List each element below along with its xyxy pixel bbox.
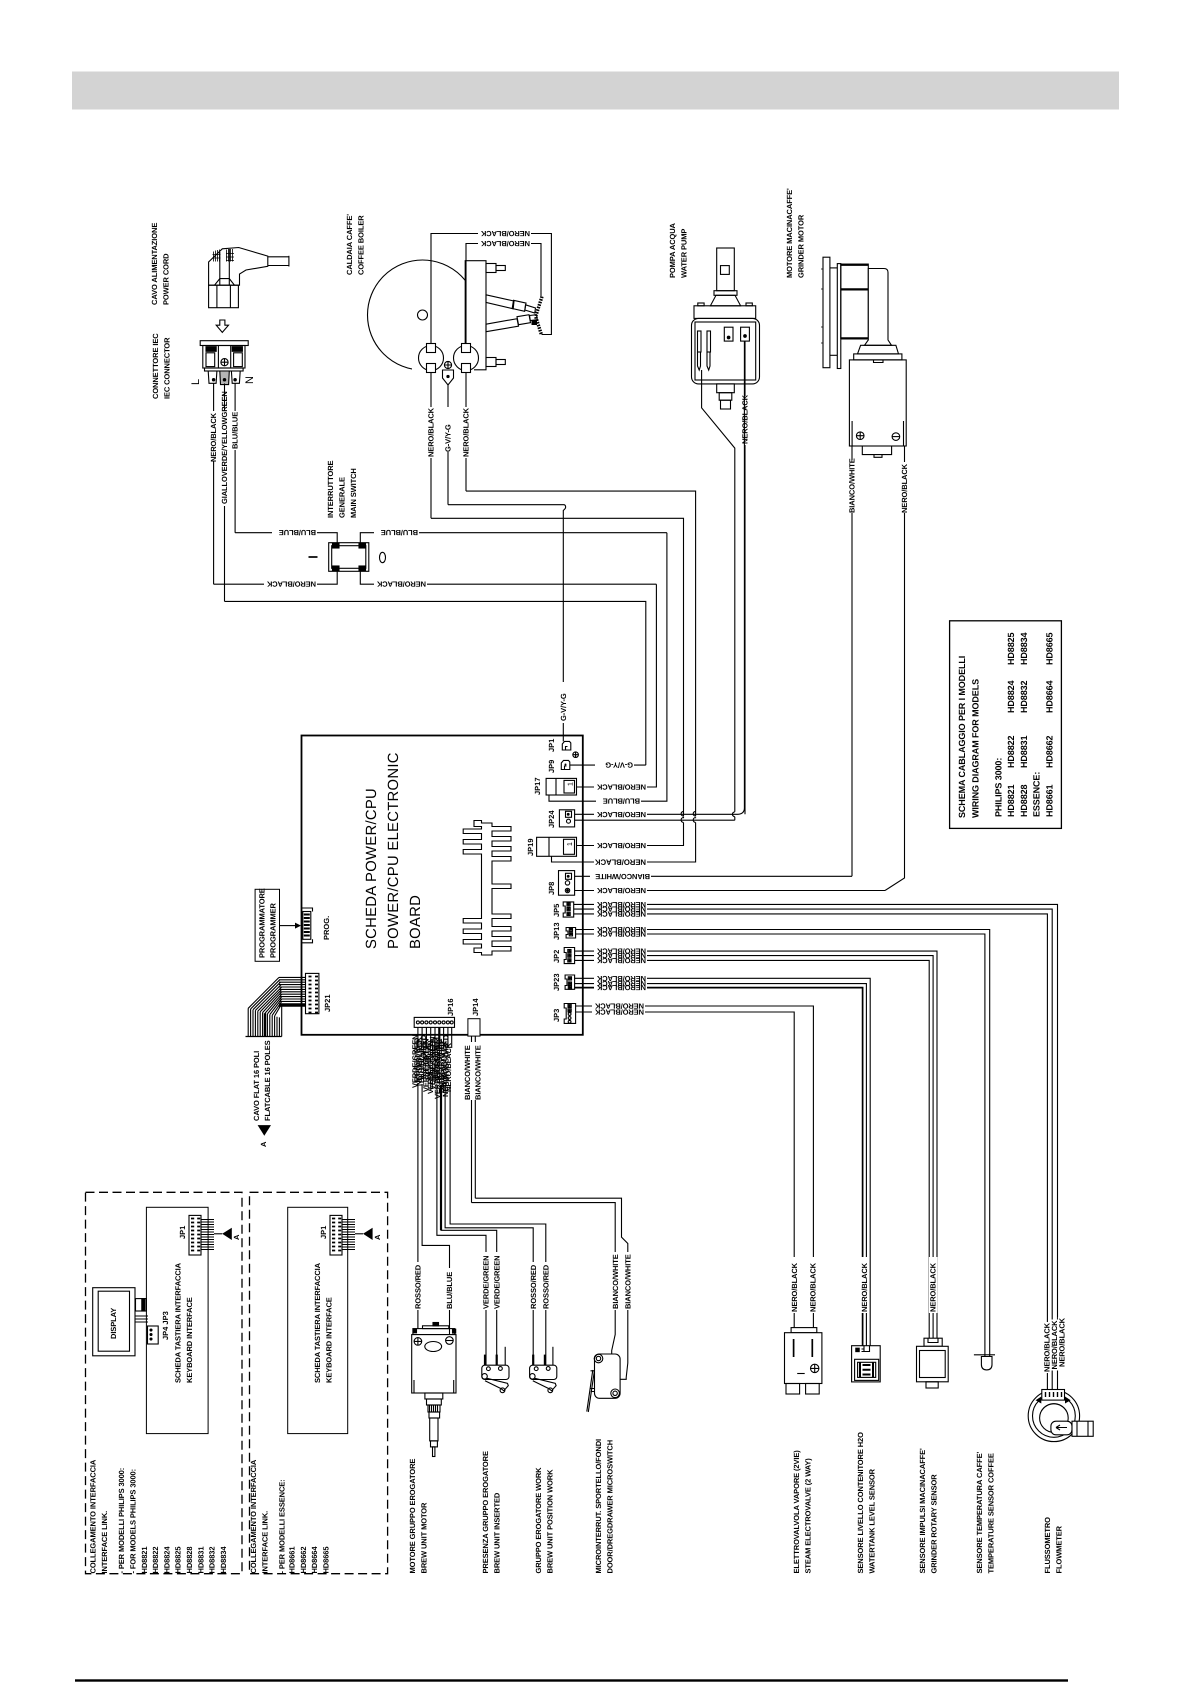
svg-text:INTERRUTTORE: INTERRUTTORE — [326, 460, 335, 518]
wire pump to JP24 pin2 — [575, 819, 735, 821]
svg-text:HD8662: HD8662 — [1045, 735, 1055, 768]
connector JP5 — [563, 902, 574, 917]
wire NERO/BLACK boiler bottom left — [430, 373, 432, 519]
svg-text:BLU/BLUE: BLU/BLUE — [603, 797, 640, 806]
boiler thermal fuse hatched clip lower — [536, 317, 542, 334]
svg-text:MOTORE GRUPPO EROGATORE: MOTORE GRUPPO EROGATORE — [408, 1459, 417, 1574]
svg-text:A: A — [232, 1234, 241, 1240]
svg-text:COLLEGAMENTO INTERFACCIA: COLLEGAMENTO INTERFACCIA — [249, 1459, 258, 1573]
svg-text:CALDAIA CAFFE': CALDAIA CAFFE' — [345, 214, 354, 275]
svg-text:STEAM ELECTROVALVE (2 WAY): STEAM ELECTROVALVE (2 WAY) — [803, 1458, 812, 1574]
svg-text:HD8825: HD8825 — [174, 1547, 183, 1574]
svg-text:INTERFACE LINK.: INTERFACE LINK. — [261, 1511, 270, 1574]
svg-text:SCHEDA TASTIERA INTERFACCIA: SCHEDA TASTIERA INTERFACCIA — [174, 1262, 183, 1383]
label door microswitch — [594, 1439, 614, 1574]
svg-text:WATERTANK LEVEL SENSOR: WATERTANK LEVEL SENSOR — [867, 1468, 876, 1573]
svg-text:BREW UNIT POSITION WORK: BREW UNIT POSITION WORK — [545, 1469, 554, 1574]
svg-text:HD8831: HD8831 — [1019, 735, 1029, 768]
grinder motor — [821, 257, 906, 457]
node A marker keyboard 1 — [214, 1233, 222, 1235]
label steam electrovalve — [792, 1450, 812, 1574]
switch O symbol — [380, 552, 386, 562]
svg-text:- PER MODELLI ESSENCE:: - PER MODELLI ESSENCE: — [278, 1479, 287, 1573]
svg-text:NERO/BLACK: NERO/BLACK — [595, 858, 646, 867]
arrow down — [216, 320, 228, 332]
svg-text:ESSENCE:: ESSENCE: — [1032, 772, 1042, 817]
flat cable ribbon — [246, 977, 306, 1036]
wire G-V/Y-G IEC earth to JP9 — [570, 764, 646, 766]
svg-text:BLU/BLUE: BLU/BLUE — [445, 1272, 454, 1309]
display — [93, 1288, 135, 1356]
thermostat T1 — [419, 344, 444, 373]
keyboard interface dashed box 2 — [250, 1192, 388, 1573]
wire BLU/BLUE switch to JP17 pin2 — [549, 533, 667, 802]
wire NERO/BLACK grinder motor to JP8 — [885, 446, 905, 891]
svg-text:NERO/BLACK: NERO/BLACK — [596, 930, 646, 939]
programmer box PROGRAMMATORE / PROGRAMMER — [255, 889, 279, 961]
presence microswitch — [482, 1347, 509, 1393]
temperature sensor — [974, 1355, 995, 1370]
board title SCHEDA POWER/CPU POWER/CPU ELECTRONIC BOARD — [364, 752, 424, 949]
svg-text:JP9: JP9 — [547, 760, 556, 773]
label flowmeter — [1043, 1517, 1063, 1574]
wire BLU/BLUE switch to JP17 — [360, 533, 667, 543]
svg-text:SENSORE LIVELLO CONTENITORE H2: SENSORE LIVELLO CONTENITORE H2O — [856, 1432, 865, 1574]
boiler thermal fuse hatched clip upper — [536, 297, 542, 317]
connector JP13 — [566, 928, 576, 939]
grinder sensor wire label NERO/BLACK — [929, 1257, 938, 1313]
svg-text:HD8664: HD8664 — [1045, 680, 1055, 713]
svg-text:GIALLOVERDE/YELLOWGREEN: GIALLOVERDE/YELLOWGREEN — [220, 391, 229, 504]
svg-text:CAVO ALIMENTAZIONE: CAVO ALIMENTAZIONE — [150, 223, 159, 305]
wire GIALLOVERDE/YELLOWGREEN from IEC earth pin — [224, 384, 226, 602]
svg-text:HD8822: HD8822 — [1006, 735, 1016, 768]
svg-text:JP3: JP3 — [552, 1009, 561, 1022]
svg-text:GRINDER ROTARY SENSOR: GRINDER ROTARY SENSOR — [929, 1474, 938, 1574]
svg-text:JP21: JP21 — [323, 994, 332, 1012]
svg-text:JP8: JP8 — [547, 882, 556, 895]
svg-text:HD8665: HD8665 — [321, 1547, 330, 1574]
svg-text:NERO/BLACK: NERO/BLACK — [596, 783, 646, 792]
svg-text:L: L — [190, 379, 202, 385]
svg-text:GRINDER MOTOR: GRINDER MOTOR — [796, 214, 805, 278]
svg-text:INTERFACE LINK.: INTERFACE LINK. — [100, 1511, 109, 1574]
main switch S1 — [329, 543, 369, 572]
svg-text:HD8831: HD8831 — [196, 1547, 205, 1574]
svg-text:JP2: JP2 — [552, 950, 561, 963]
wire BIANCO/WHITE grinder motor to JP8 — [851, 446, 853, 876]
svg-text:SCHEDA POWER/CPU: SCHEDA POWER/CPU — [364, 788, 380, 949]
wires JP5 to flowmeter — [574, 904, 1058, 1389]
svg-text:NERO/BLACK: NERO/BLACK — [790, 1262, 799, 1312]
svg-text:NERO/BLACK: NERO/BLACK — [480, 229, 530, 238]
svg-text:HD8828: HD8828 — [1019, 784, 1029, 817]
door microswitch wire BIANCO/WHITE 2 — [475, 1198, 628, 1379]
connector JP9 — [561, 760, 570, 769]
wire NERO/BLACK pump to JP24 pin1 — [575, 341, 745, 814]
svg-text:NERO/BLACK: NERO/BLACK — [860, 1262, 869, 1312]
svg-text:PROGRAMMATORE: PROGRAMMATORE — [258, 888, 267, 958]
svg-text:ROSSO/RED: ROSSO/RED — [541, 1264, 550, 1309]
svg-text:G-V/Y-G: G-V/Y-G — [605, 761, 633, 770]
svg-text:JP24: JP24 — [547, 810, 556, 828]
svg-text:ROSSO/RED: ROSSO/RED — [529, 1264, 538, 1309]
svg-text:KEYBOARD INTERFACE: KEYBOARD INTERFACE — [325, 1297, 334, 1383]
main switch label INTERRUTTORE GENERALE MAIN SWITCH — [326, 460, 358, 518]
svg-text:NERO/BLACK: NERO/BLACK — [596, 886, 646, 895]
keyboard board 2 — [288, 1207, 348, 1433]
boiler label CALDAIA CAFFE' / COFFEE BOILER — [345, 214, 366, 275]
svg-text:NERO/BLACK: NERO/BLACK — [741, 394, 750, 444]
svg-text:A: A — [259, 1141, 268, 1147]
svg-text:NERO/BLACK: NERO/BLACK — [596, 841, 646, 850]
svg-text:VERDE/GREEN: VERDE/GREEN — [492, 1256, 501, 1310]
svg-text:NERO/BLACK: NERO/BLACK — [462, 407, 471, 457]
svg-text:DISPLAY: DISPLAY — [109, 1308, 118, 1339]
connector JP23 — [565, 975, 575, 989]
svg-text:JP14: JP14 — [471, 998, 480, 1016]
JP16 wire label block — [411, 1033, 454, 1099]
svg-text:POWER/CPU ELECTRONIC: POWER/CPU ELECTRONIC — [386, 752, 402, 949]
svg-text:KEYBOARD INTERFACE: KEYBOARD INTERFACE — [185, 1297, 194, 1383]
header gray bar — [72, 72, 1119, 110]
svg-text:GRUPPO EROGATORE WORK: GRUPPO EROGATORE WORK — [534, 1467, 543, 1574]
connector JP1 keyboard 2 — [330, 1215, 355, 1255]
flowmeter — [1028, 1390, 1093, 1442]
wire NERO/BLACK boiler top right — [466, 244, 541, 344]
wire G-V/Y-G boiler earth — [447, 385, 449, 505]
svg-text:NERO/BLACK: NERO/BLACK — [376, 580, 426, 589]
connector JP14 — [468, 1019, 480, 1036]
svg-text:POWER CORD: POWER CORD — [162, 253, 171, 305]
svg-text:ELETTROVALVOLA VAPORE (2VIE): ELETTROVALVOLA VAPORE (2VIE) — [792, 1450, 801, 1574]
svg-text:BIANCO/WHITE: BIANCO/WHITE — [611, 1254, 620, 1309]
svg-text:BIANCO/WHITE: BIANCO/WHITE — [848, 458, 857, 513]
svg-text:BIANCO/WHITE: BIANCO/WHITE — [473, 1045, 482, 1100]
svg-text:BIANCO/WHITE: BIANCO/WHITE — [463, 1045, 472, 1100]
label watertank level sensor — [856, 1432, 876, 1574]
JP16 pin wires into loom — [418, 1027, 452, 1048]
work switch wire ROSSO/RED 2 — [450, 1085, 546, 1366]
svg-text:HD8834: HD8834 — [1019, 632, 1029, 665]
JP14 wires BIANCO/WHITE pair — [471, 1036, 473, 1203]
node A marker at flat cable — [258, 1125, 271, 1136]
grinder motor label MOTORE MACINACAFFE' / GRINDER MOTOR — [785, 188, 806, 278]
connector JP1 — [562, 741, 571, 750]
svg-text:JP1: JP1 — [547, 739, 556, 752]
svg-text:BLU/BLUE: BLU/BLUE — [231, 412, 240, 449]
node A marker keyboard 2 — [355, 1233, 363, 1235]
svg-text:NERO/BLACK: NERO/BLACK — [596, 810, 646, 819]
svg-text:- PER MODELLI PHILIPS 3000:: - PER MODELLI PHILIPS 3000: — [117, 1468, 126, 1574]
flowmeter wire labels NERO/BLACK x3 — [1043, 1322, 1051, 1373]
svg-text:PROG.: PROG. — [322, 916, 331, 940]
door microswitch wire BIANCO/WHITE 1 — [472, 1203, 616, 1354]
wires JP2 to grinder sensor — [575, 951, 937, 1338]
svg-text:1: 1 — [568, 782, 575, 786]
board mount screw — [573, 752, 579, 758]
svg-text:BLU/BLUE: BLU/BLUE — [279, 528, 316, 537]
svg-text:N: N — [244, 376, 256, 384]
svg-text:HD8662: HD8662 — [299, 1547, 308, 1574]
svg-text:IEC CONNECTOR: IEC CONNECTOR — [163, 337, 172, 399]
wire G-V/Y-G boiler to JP1 — [448, 505, 566, 742]
interface link text column 1 — [89, 1459, 228, 1573]
svg-text:SCHEMA CABLAGGIO PER I MODELLI: SCHEMA CABLAGGIO PER I MODELLI — [957, 656, 967, 818]
connector PROG. — [302, 908, 313, 943]
wire BLU/BLUE IEC to switch — [235, 533, 337, 543]
svg-text:HD8821: HD8821 — [140, 1547, 149, 1574]
svg-text:JP1: JP1 — [178, 1226, 187, 1239]
svg-text:NERO/BLACK: NERO/BLACK — [596, 956, 646, 965]
svg-text:NERO/BLACK: NERO/BLACK — [1057, 1317, 1066, 1367]
svg-text:NERO/BLACK: NERO/BLACK — [480, 239, 530, 248]
work microswitch — [530, 1347, 557, 1393]
svg-text:SENSORE IMPULSI MACINACAFFE': SENSORE IMPULSI MACINACAFFE' — [918, 1448, 927, 1574]
svg-text:HD8665: HD8665 — [1045, 632, 1055, 665]
svg-text:HD8825: HD8825 — [1006, 632, 1016, 665]
wire NERO/BLACK IEC to switch — [214, 571, 338, 584]
svg-text:HD8834: HD8834 — [219, 1546, 228, 1574]
svg-text:- FOR MODELS PHILIPS 3000:: - FOR MODELS PHILIPS 3000: — [129, 1469, 138, 1574]
steam valve wire labels NERO/BLACK — [790, 1257, 799, 1313]
svg-text:BREW UNIT INSERTED: BREW UNIT INSERTED — [492, 1492, 501, 1573]
wire NERO/BLACK boiler to JP19 pin1 — [431, 518, 684, 845]
svg-text:BIANCO/WHITE: BIANCO/WHITE — [595, 872, 650, 881]
wire BIANCO/WHITE grinder to JP8 pin1 — [575, 875, 852, 877]
svg-text:MAIN SWITCH: MAIN SWITCH — [349, 468, 358, 518]
label work microswitch — [534, 1467, 554, 1574]
connector JP2 — [564, 948, 574, 964]
svg-text:HD8821: HD8821 — [1006, 784, 1016, 817]
svg-text:HD8661: HD8661 — [1045, 784, 1055, 817]
svg-text:NERO/BLACK: NERO/BLACK — [427, 407, 436, 457]
keyboard interface dashed box 1 — [86, 1192, 243, 1573]
svg-text:NERO/BLACK: NERO/BLACK — [266, 580, 316, 589]
display ribbon to JP4 — [136, 1299, 159, 1344]
svg-text:SCHEDA TASTIERA INTERFACCIA: SCHEDA TASTIERA INTERFACCIA — [313, 1262, 322, 1383]
watertank level sensor — [852, 1346, 881, 1382]
label presence microswitch — [481, 1451, 501, 1573]
water pump — [692, 248, 760, 409]
svg-text:MICROINTERRUT. SPORTELLO/FONDI: MICROINTERRUT. SPORTELLO/FONDI — [594, 1439, 603, 1574]
door microswitch — [587, 1354, 620, 1412]
brew motor wire ROSSO/RED — [417, 1083, 419, 1329]
connector JP1 keyboard 1 — [189, 1215, 214, 1255]
svg-text:PROGRAMMER: PROGRAMMER — [269, 902, 278, 958]
svg-text:FLATCABLE 16 POLES: FLATCABLE 16 POLES — [263, 1040, 272, 1121]
svg-text:JP17: JP17 — [533, 777, 542, 795]
thermostat T2 — [454, 344, 479, 373]
svg-text:BLU/BLUE: BLU/BLUE — [381, 528, 418, 537]
svg-text:CAVO FLAT 16 POLI: CAVO FLAT 16 POLI — [252, 1051, 261, 1121]
power cord label CAVO ALIMENTAZIONE / POWER CORD — [150, 223, 171, 305]
wire earth IEC to JP9 — [225, 601, 646, 765]
steam electrovalve — [785, 1328, 822, 1394]
svg-text:NERO/BLACK: NERO/BLACK — [209, 412, 218, 462]
keyboard board 1 — [146, 1207, 208, 1433]
wires JP3 to steam electrovalve — [576, 1006, 814, 1328]
wire NERO/BLACK water pump right to JP24 pin1 — [744, 341, 746, 814]
presence switch wire VERDE/GREEN 2 — [441, 1085, 497, 1366]
switch I symbol — [309, 556, 318, 558]
svg-text:GENERALE: GENERALE — [338, 477, 347, 518]
wire water pump left to JP24 pin2 — [702, 370, 735, 820]
svg-text:JP19: JP19 — [526, 838, 535, 856]
svg-text:TEMPERATURE SENSOR COFFEE: TEMPERATURE SENSOR COFFEE — [986, 1453, 995, 1573]
wires JP23 to watertank sensor — [575, 978, 871, 1345]
svg-text:BREW UNIT MOTOR: BREW UNIT MOTOR — [419, 1502, 428, 1574]
connector JP24 — [559, 810, 574, 827]
svg-text:JP23: JP23 — [552, 973, 561, 991]
connector JP3 — [564, 1004, 575, 1024]
svg-text:JP1: JP1 — [319, 1226, 328, 1239]
connector JP19 — [537, 837, 577, 856]
connector JP21 — [306, 973, 319, 1013]
svg-text:VERDE/GREEN: VERDE/GREEN — [482, 1256, 491, 1310]
svg-text:POMPA ACQUA: POMPA ACQUA — [668, 222, 677, 278]
svg-text:COFFEE BOILER: COFFEE BOILER — [357, 215, 366, 275]
svg-text:HD8824: HD8824 — [1006, 680, 1016, 713]
svg-text:A: A — [373, 1234, 382, 1240]
svg-text:NERO/BLACK: NERO/BLACK — [900, 463, 909, 513]
svg-text:G-V/Y-G: G-V/Y-G — [444, 424, 453, 452]
svg-text:G-V/Y-G: G-V/Y-G — [559, 693, 568, 721]
power cord plug — [209, 248, 289, 308]
svg-text:1: 1 — [567, 842, 574, 846]
wire NERO/BLACK grinder to JP8 pin3 — [575, 890, 885, 892]
svg-text:COLLEGAMENTO INTERFACCIA: COLLEGAMENTO INTERFACCIA — [89, 1459, 98, 1573]
svg-text:CONNETTORE IEC: CONNETTORE IEC — [151, 333, 160, 399]
svg-text:MOTORE MACINACAFFE': MOTORE MACINACAFFE' — [785, 188, 794, 278]
svg-text:NERO/BLACK: NERO/BLACK — [929, 1262, 938, 1312]
IEC connector label CONNETTORE IEC / IEC CONNECTOR — [151, 333, 172, 399]
svg-text:FLUSSOMETRO: FLUSSOMETRO — [1043, 1517, 1052, 1574]
svg-text:HD8664: HD8664 — [310, 1546, 319, 1574]
svg-text:DOOR/DREGDRAWER MICROSWITCH: DOOR/DREGDRAWER MICROSWITCH — [605, 1440, 614, 1574]
wire NERO/BLACK boiler top left — [431, 234, 551, 344]
svg-text:VERDE/GREEN: VERDE/GREEN — [411, 1035, 420, 1089]
svg-text:WIRING DIAGRAM FOR MODELS: WIRING DIAGRAM FOR MODELS — [971, 679, 981, 818]
svg-text:SENSORE TEMPERATURA CAFFE': SENSORE TEMPERATURA CAFFE' — [975, 1451, 984, 1573]
svg-text:FLOWMETER: FLOWMETER — [1054, 1525, 1063, 1573]
boiler earth screw — [443, 361, 454, 385]
CPU board outline — [302, 736, 583, 1035]
brew motor wire BLU/BLUE — [422, 1084, 449, 1334]
label brew unit motor — [408, 1459, 428, 1574]
svg-text:PHILIPS 3000:: PHILIPS 3000: — [994, 758, 1004, 817]
wire BLU/BLUE from IEC pin N — [234, 384, 236, 533]
svg-text:HD8828: HD8828 — [185, 1547, 194, 1574]
svg-text:WATER PUMP: WATER PUMP — [680, 229, 689, 278]
wire NERO/BLACK boiler to JP19 pin2 — [466, 491, 696, 862]
svg-text:NERO/BLACK: NERO/BLACK — [594, 1008, 644, 1017]
wire NERO/BLACK switch to JP17 pin1 — [577, 584, 657, 787]
svg-text:HD8661: HD8661 — [288, 1547, 297, 1574]
svg-text:ROSSO/RED: ROSSO/RED — [414, 1264, 423, 1309]
svg-text:ROSSO/RED: ROSSO/RED — [442, 1034, 451, 1079]
work switch wire ROSSO/RED 1 — [445, 1085, 533, 1366]
presence switch wire VERDE/GREEN 1 — [437, 1085, 486, 1366]
watertank sensor wire label NERO/BLACK — [861, 1257, 870, 1313]
connector JP8 — [559, 871, 575, 896]
water pump label POMPA ACQUA / WATER PUMP — [668, 222, 689, 278]
wires JP13 to temperature sensor — [576, 930, 990, 1357]
svg-text:HD8832: HD8832 — [208, 1547, 217, 1574]
label temperature sensor — [975, 1451, 995, 1573]
svg-text:NERO/BLACK: NERO/BLACK — [596, 983, 646, 992]
arrow programmer to PROG — [280, 925, 296, 927]
svg-text:PRESENZA GRUPPO EROGATORE: PRESENZA GRUPPO EROGATORE — [481, 1451, 490, 1573]
connector JP17 — [546, 778, 576, 795]
svg-text:HD8824: HD8824 — [162, 1546, 171, 1574]
label grinder rotary sensor — [918, 1448, 938, 1574]
svg-text:HD8822: HD8822 — [151, 1547, 160, 1574]
grinder rotary sensor — [917, 1338, 949, 1388]
svg-text:BOARD: BOARD — [408, 895, 424, 949]
svg-text:NERO/BLACK: NERO/BLACK — [596, 909, 646, 918]
brew unit motor — [412, 1323, 456, 1457]
svg-text:NERO/BLACK: NERO/BLACK — [809, 1262, 818, 1312]
wire NERO/BLACK from IEC pin L — [213, 384, 215, 585]
svg-text:JP16: JP16 — [446, 998, 455, 1016]
heatsink — [463, 821, 511, 956]
models box SCHEMA CABLAGGIO PER I MODELLI — [950, 621, 1062, 829]
svg-text:BIANCO/WHITE: BIANCO/WHITE — [623, 1254, 632, 1309]
svg-text:JP13: JP13 — [552, 922, 561, 940]
svg-text:JP4 JP3: JP4 JP3 — [161, 1311, 170, 1340]
connector JP16 — [414, 1017, 454, 1027]
coffee boiler body — [368, 260, 538, 370]
IEC connector — [200, 341, 248, 385]
svg-text:JP5: JP5 — [552, 904, 561, 917]
interface link text column 2 — [249, 1459, 330, 1573]
wire NERO/BLACK switch to JP17 — [360, 571, 656, 584]
svg-text:HD8832: HD8832 — [1019, 680, 1029, 713]
wire NERO/BLACK boiler bottom right — [465, 373, 467, 492]
bottom page edge line — [75, 1679, 1068, 1681]
